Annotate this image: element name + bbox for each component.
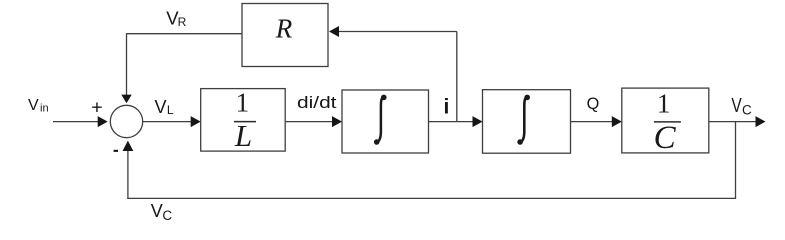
svg-text:1: 1 xyxy=(657,88,671,118)
wire bottom feedback horizontal xyxy=(127,197,735,199)
svg-text:1: 1 xyxy=(236,88,250,118)
block R xyxy=(242,4,328,67)
svg-text:C: C xyxy=(654,120,677,156)
svg-text:V: V xyxy=(155,97,167,117)
label VC bottom xyxy=(151,201,173,223)
svg-text:+: + xyxy=(91,97,102,119)
svg-text:R: R xyxy=(275,14,293,44)
svg-text:L: L xyxy=(234,118,252,153)
label Vin xyxy=(28,97,49,115)
wire output tap down xyxy=(735,122,737,199)
svg-text:C: C xyxy=(742,102,752,117)
wire integrator 1 to integrator 2 with node i xyxy=(429,116,483,127)
wire up into summing junction bottom xyxy=(123,141,134,199)
wire top horizontal into R block xyxy=(329,26,457,37)
svg-text:Q: Q xyxy=(587,95,600,113)
svg-text:in: in xyxy=(40,103,49,115)
integrator block 2 xyxy=(483,90,571,154)
svg-text:R: R xyxy=(178,15,187,29)
svg-text:i: i xyxy=(443,96,449,119)
svg-text:C: C xyxy=(162,208,172,223)
svg-text:V: V xyxy=(151,201,163,221)
wire integrator 2 to 1/C xyxy=(571,116,622,127)
label VL xyxy=(155,97,174,117)
minus sign at summing junction xyxy=(114,150,118,152)
svg-text:L: L xyxy=(167,103,174,117)
block 1/C xyxy=(622,88,709,156)
label VC output xyxy=(731,95,752,118)
wire R output to left xyxy=(127,33,243,35)
label VR xyxy=(166,8,186,29)
wire down into summing junction top xyxy=(121,33,131,103)
svg-text:V: V xyxy=(731,95,742,117)
wire summing junction to 1/L block xyxy=(143,116,201,127)
block 1/L xyxy=(201,88,286,153)
integrator block 1 xyxy=(342,90,429,153)
wire 1/C to output xyxy=(709,116,766,127)
wire node i up to R feedback xyxy=(456,32,458,122)
summing junction circle xyxy=(110,105,142,137)
wire 1/L to integrator 1 xyxy=(285,116,342,127)
svg-text:V: V xyxy=(28,97,39,114)
wire input arrow into summing junction xyxy=(53,116,108,127)
svg-text:di/dt: di/dt xyxy=(297,94,337,112)
